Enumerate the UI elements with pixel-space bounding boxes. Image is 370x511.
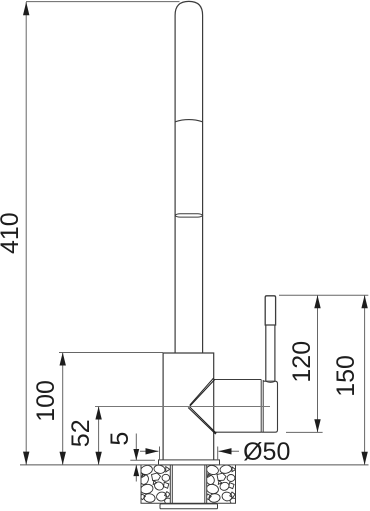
dim 150 line [364, 295, 366, 465]
svg-text:150: 150 [332, 355, 360, 397]
dim 410 arrows [23, 2, 29, 15]
countertop surface line [20, 464, 369, 466]
spout tube outline [175, 1, 203, 353]
dim 120 extension bottom [286, 431, 323, 433]
aerator ring [175, 214, 203, 217]
spout seam arc [175, 120, 203, 122]
svg-text:410: 410 [0, 212, 24, 254]
dim 5 line upper [135, 434, 137, 461]
svg-text:52: 52 [67, 419, 95, 447]
valve body [261, 381, 277, 432]
valve joint ring [261, 380, 263, 433]
dim Ø50 extension lines [160, 447, 218, 461]
dim 120 line [317, 295, 319, 432]
dim Ø50 left arrow [140, 450, 159, 452]
dim 52 / centerline extension [95, 406, 270, 408]
mounting nut [160, 504, 218, 509]
base flange [159, 460, 220, 465]
elbow chamfer upper [189, 379, 215, 406]
outlet bottom line [214, 431, 262, 433]
svg-text:100: 100 [32, 380, 60, 422]
right dims extension top [279, 294, 368, 296]
dim 52 line [98, 407, 100, 465]
svg-text:120: 120 [288, 341, 316, 383]
outlet top line [214, 379, 262, 381]
dim 5 line lower [135, 465, 137, 482]
svg-text:5: 5 [106, 432, 134, 446]
dim 100 extension [59, 352, 163, 354]
shank [172, 465, 205, 504]
svg-text:Ø50: Ø50 [243, 438, 290, 466]
dim 100 line [62, 353, 64, 465]
countertop section box [141, 465, 236, 503]
elbow chamfer lower [189, 407, 216, 434]
handle stem [266, 325, 275, 381]
dim 410 extension top [26, 1, 180, 3]
handle grip [265, 296, 275, 325]
faucet body [163, 353, 214, 460]
hole edges [170, 465, 206, 503]
dim 410 line [25, 2, 27, 465]
dim Ø50 right arrow [219, 450, 240, 452]
dim 5 tick [130, 459, 155, 461]
